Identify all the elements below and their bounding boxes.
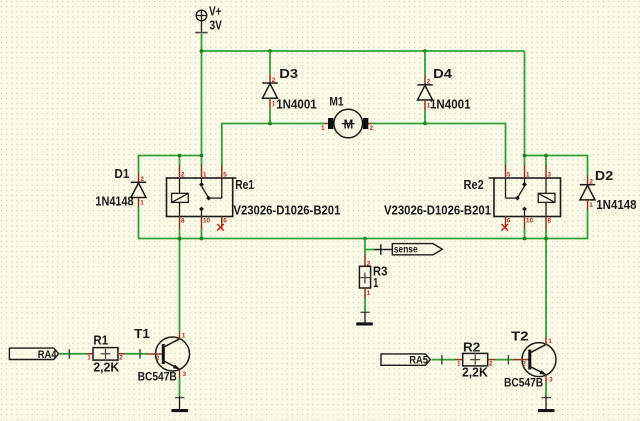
wire end cross (139, 349, 141, 358)
switch Re2 (524, 178, 526, 183)
unconnected pin 6 X mark (217, 224, 224, 231)
wire end cross (507, 355, 509, 364)
svg-text:1: 1 (272, 101, 276, 108)
svg-text:1: 1 (548, 338, 552, 345)
svg-text:T1: T1 (134, 326, 150, 341)
svg-text:5: 5 (507, 171, 511, 178)
resistor R3 (359, 255, 387, 298)
wire end cross (441, 355, 443, 364)
node motor-right wire at D4 (423, 122, 427, 126)
wire right drop to Re2 (524, 51, 526, 166)
svg-text:2: 2 (119, 355, 123, 362)
svg-text:Re2: Re2 (464, 177, 484, 192)
node bottom rail at Re1 pin 10 (200, 237, 204, 241)
node left mid rail at pin 1 (200, 154, 204, 158)
wire sense branch (365, 239, 374, 250)
wire D3 bottom (269, 108, 271, 124)
svg-text:2: 2 (522, 361, 526, 368)
pin stubs Re1 (179, 165, 181, 178)
ground below T1 (172, 396, 189, 412)
wire end cross (68, 349, 70, 358)
svg-text:2: 2 (589, 178, 593, 185)
wire motor right / Re2 pin 5 drop (372, 124, 506, 166)
svg-text:V23026-D1026-B201: V23026-D1026-B201 (233, 204, 340, 218)
wire left mid rail from D1 to Re1 (139, 156, 202, 173)
diode D1 (95, 166, 146, 209)
wire R2 to T2 (496, 359, 514, 361)
svg-text:1N4148: 1N4148 (596, 197, 636, 212)
resistor R2 (455, 339, 496, 379)
node top rail at V+ (200, 49, 204, 53)
wire R1 to T1 (126, 353, 147, 355)
wire T1 emitter to ground (179, 378, 181, 397)
svg-text:D2: D2 (595, 168, 613, 183)
svg-text:2,2K: 2,2K (462, 365, 488, 380)
node right mid rail at pin 1 (523, 154, 527, 158)
flag sense (381, 244, 443, 256)
svg-text:1: 1 (203, 171, 207, 178)
svg-text:RA4: RA4 (38, 349, 57, 361)
wire top rail (202, 50, 525, 52)
svg-text:2: 2 (140, 176, 144, 183)
node left mid rail at pin 2 (178, 154, 182, 158)
wire Re1 pin 2 drop (179, 156, 181, 166)
wire Re2 coil pin 8 drop to T2 collector (545, 229, 547, 338)
svg-text:2: 2 (427, 79, 431, 86)
svg-text:Re1: Re1 (235, 177, 254, 192)
wire R3 to ground (364, 298, 366, 312)
svg-text:2: 2 (367, 260, 371, 267)
svg-text:8: 8 (181, 217, 185, 224)
svg-text:1N4001: 1N4001 (276, 97, 317, 112)
flag RA4 (9, 348, 58, 361)
ground below T2 (538, 396, 555, 412)
svg-text:1: 1 (589, 202, 593, 209)
wire Re2 pin 10 drop (524, 229, 526, 239)
switch Re1 (201, 178, 203, 183)
svg-text:2: 2 (489, 360, 493, 367)
svg-text:6: 6 (507, 217, 511, 224)
node top rail at D3 (268, 49, 272, 53)
wire Re1 coil pin 8 drop to T1 collector (179, 229, 181, 332)
relay Re2 (384, 165, 561, 231)
svg-text:1: 1 (457, 360, 461, 367)
diode D2 (580, 168, 637, 212)
svg-text:2: 2 (370, 125, 374, 132)
svg-text:5: 5 (223, 171, 227, 178)
svg-text:1: 1 (367, 290, 371, 297)
svg-text:1N4148: 1N4148 (95, 194, 133, 209)
wire D3 top (269, 51, 271, 73)
node bottom rail at Re2 pin 8 (544, 237, 548, 241)
svg-text:T2: T2 (511, 329, 528, 344)
motor M1 (321, 95, 374, 138)
wire RA4 to R1 (60, 353, 87, 355)
node top rail at D4 (423, 49, 427, 53)
wire right mid rail to D2 (525, 156, 588, 175)
wire motor left / Re1 pin 5 drop (222, 124, 325, 166)
wire down to R3 (364, 250, 366, 255)
svg-text:3: 3 (549, 377, 553, 384)
svg-text:BC547B: BC547B (138, 370, 177, 384)
wire V+ down to relay Re1 pin 1 (201, 34, 203, 166)
svg-text:2,2K: 2,2K (93, 360, 119, 375)
wire D4 bottom (424, 110, 426, 124)
node bottom rail at sense/R3 (363, 237, 367, 241)
svg-text:3: 3 (183, 371, 187, 378)
wire D1 bottom to bottom rail (139, 207, 588, 239)
relay Re1 (167, 165, 341, 231)
flag RA5 (381, 354, 430, 367)
svg-text:R2: R2 (463, 339, 480, 354)
svg-text:D4: D4 (433, 66, 453, 81)
wire Re1 pin 10 drop (201, 229, 203, 239)
node bottom rail at Re2 pin 10 (523, 237, 527, 241)
wire Re2 pin 3 drop (545, 156, 547, 166)
svg-text:8: 8 (547, 217, 551, 224)
svg-text:D1: D1 (114, 166, 129, 181)
svg-text:1N4001: 1N4001 (430, 97, 471, 112)
resistor R1 (86, 332, 126, 374)
coil Re1 (172, 193, 189, 202)
node bottom rail at Re1 pin 8 (178, 237, 182, 241)
svg-text:RA5: RA5 (409, 355, 428, 367)
transistor T2 BC547B (504, 329, 556, 390)
svg-text:D3: D3 (279, 66, 298, 81)
svg-text:3V: 3V (210, 18, 223, 33)
node right mid rail at pin 3 (544, 154, 548, 158)
wire D4 top (424, 51, 426, 75)
ground below R3 (356, 311, 373, 325)
pin stubs Re2 (505, 165, 507, 178)
svg-text:1: 1 (321, 125, 325, 132)
node motor-left wire at D3 (268, 122, 272, 126)
svg-text:1: 1 (87, 355, 91, 362)
svg-text:3: 3 (547, 171, 551, 178)
svg-text:sense: sense (394, 245, 418, 256)
transistor T1 BC547B (134, 326, 189, 384)
svg-text:1: 1 (140, 200, 144, 207)
wire T2 emitter to ground (545, 383, 547, 396)
supply V+ 3V (195, 4, 222, 34)
svg-text:BC547B: BC547B (504, 376, 543, 390)
label lead (black) to sense flag (374, 249, 392, 251)
unconnected pin 6 X mark (502, 224, 509, 231)
diode D4 (417, 66, 470, 112)
svg-text:10: 10 (203, 217, 211, 224)
svg-text:2: 2 (181, 171, 185, 178)
svg-text:V23026-D1026-B201: V23026-D1026-B201 (384, 204, 491, 218)
coil Re2 (538, 193, 555, 202)
svg-text:6: 6 (223, 217, 227, 224)
diode D3 (262, 66, 316, 112)
svg-text:2: 2 (272, 77, 276, 84)
wire RA5 to R2 (432, 359, 456, 361)
svg-text:2: 2 (156, 355, 160, 362)
svg-text:V+: V+ (209, 4, 222, 19)
svg-text:1: 1 (373, 275, 378, 290)
svg-text:10: 10 (526, 217, 534, 224)
svg-text:M1: M1 (329, 95, 343, 109)
svg-text:R1: R1 (93, 332, 108, 347)
svg-text:1: 1 (526, 171, 530, 178)
svg-text:1: 1 (182, 332, 186, 339)
